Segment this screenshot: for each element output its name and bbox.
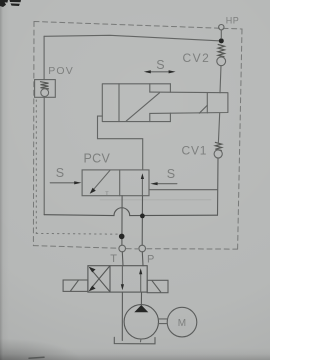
check valve CV1 spring <box>215 142 221 150</box>
valve POV body <box>35 80 56 98</box>
port HP (open circle) <box>219 25 224 30</box>
wire: intensifier HP port to CV1 <box>218 113 219 142</box>
intensifier rod diagonal 2 <box>199 105 207 113</box>
intensifier small piston <box>206 93 208 113</box>
faint scan streak <box>100 199 211 201</box>
valve PCV right-position arrow <box>141 176 143 196</box>
wire: T circle to DCV <box>121 252 124 266</box>
check valve CV1 ball <box>214 150 222 158</box>
wire: bottom rail with crossover hop <box>44 208 217 216</box>
motor circle <box>167 307 197 337</box>
valve DCV straight arrows <box>121 266 123 287</box>
svg-text:S: S <box>56 166 64 180</box>
intensifier rod diagonal 1 <box>126 93 159 121</box>
valve PCV divider <box>119 170 121 196</box>
pilot line (dotted) from POV <box>36 100 120 234</box>
wire: POV to bottom rail <box>43 97 45 214</box>
wire: intensifier LP port to PCV top <box>98 116 143 170</box>
svg-text:T: T <box>110 253 117 265</box>
svg-text:T: T <box>105 191 109 197</box>
wire: PCV P port down <box>141 196 143 245</box>
check valve CV2 ball <box>217 57 226 66</box>
pilot arrow S right <box>155 183 177 185</box>
check valve CV2 spring <box>218 45 224 57</box>
bottom-left page smudge <box>29 357 44 358</box>
svg-text:HP: HP <box>226 15 240 25</box>
valve POV ball <box>41 89 49 97</box>
wire: HP stub <box>220 30 222 39</box>
pump flow triangle <box>134 305 148 312</box>
wire: DCV tank return <box>121 292 123 340</box>
valve DCV body <box>88 266 147 292</box>
pump circle <box>124 305 158 339</box>
solenoid right <box>147 280 168 292</box>
node: pilot tap junction <box>119 234 125 240</box>
svg-text:CV2: CV2 <box>183 51 211 65</box>
page-top cropped print marks <box>0 0 21 7</box>
valve DCV crossed arrows <box>91 267 110 292</box>
wire: PCV T port down to valve <box>121 196 123 245</box>
port T boundary circle <box>119 245 126 252</box>
wire: P circle to DCV <box>141 252 144 266</box>
dashed enclosure (power unit boundary) <box>33 22 242 250</box>
intensifier large piston <box>118 84 120 122</box>
wire: CV1 to bottom rail <box>217 158 220 215</box>
valve DCV divider <box>109 266 111 292</box>
node: HP junction <box>219 38 224 43</box>
intensifier small cylinder <box>150 92 228 113</box>
svg-text:CV1: CV1 <box>182 143 208 157</box>
svg-text:P: P <box>147 254 154 266</box>
pilot arrow S left <box>50 182 77 184</box>
wire: pump suction <box>140 339 142 342</box>
valve PCV body <box>82 170 149 196</box>
svg-text:M: M <box>178 318 186 329</box>
stroke arrow (double head) <box>147 71 174 73</box>
wire: CV2 to intensifier HP port <box>220 66 221 93</box>
solenoid left <box>63 280 88 291</box>
tank <box>114 337 155 344</box>
intensifier large barrel <box>102 84 170 122</box>
valve POV spring <box>41 82 49 89</box>
wire: POV drop line <box>43 36 45 79</box>
svg-text:PCV: PCV <box>84 152 111 166</box>
node: P rail junction <box>140 214 145 219</box>
port P boundary circle <box>139 245 146 252</box>
svg-text:POV: POV <box>48 65 74 77</box>
valve PCV left-position arrow <box>92 170 111 192</box>
wire: PCV right port to CV1 node <box>149 189 217 191</box>
shaft coupling <box>158 319 167 324</box>
wire: HP top line from POV to CV2 junction <box>44 35 221 41</box>
svg-text:S: S <box>156 58 164 72</box>
svg-text:S: S <box>167 167 175 181</box>
wire: DCV to pump <box>140 293 142 305</box>
